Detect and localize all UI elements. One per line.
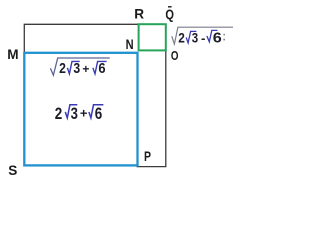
svg-text:2: 2 [55, 105, 63, 123]
svg-text:2: 2 [59, 61, 66, 77]
svg-text:2: 2 [178, 30, 185, 46]
svg-text:S: S [8, 163, 17, 178]
green side label: inner radical of sqrt3 [186, 31, 196, 43]
green side label: minus sign [202, 39, 205, 41]
svg-text:6: 6 [95, 105, 103, 123]
svg-text:P: P [144, 149, 151, 164]
svg-text:Q: Q [165, 7, 174, 22]
clipped colon artifact at image edge [223, 34, 225, 36]
side label sqrt(2*sqrt3 + sqrt6): outer radical with vinculum [50, 58, 109, 75]
svg-text:M: M [7, 47, 18, 62]
green side label: inner radical of sqrt6 [207, 30, 218, 41]
svg-text:R: R [134, 7, 144, 22]
svg-text:3: 3 [71, 105, 78, 123]
svg-text:3: 3 [192, 30, 199, 46]
area label: radical of sqrt3 [65, 105, 77, 118]
svg-text:O: O [171, 48, 179, 63]
svg-text:3: 3 [73, 61, 80, 77]
green square at top-right corner (side RQ) [139, 24, 166, 50]
svg-text:N: N [126, 37, 134, 52]
green side label sqrt(2*sqrt3 - sqrt6): outer radical with vinculum to edge [172, 27, 233, 44]
svg-text:+: + [82, 62, 89, 76]
area label: radical of sqrt6 [89, 105, 104, 118]
svg-text:6: 6 [213, 31, 222, 47]
outer square R Q O S (black outline) [24, 24, 166, 166]
svg-text:+: + [80, 106, 88, 121]
side label: inner radical of sqrt6 [93, 61, 107, 73]
bar above Q [168, 6, 172, 7]
blue square M N P S [24, 53, 137, 166]
side label: inner radical of sqrt3 [67, 61, 79, 73]
svg-text:6: 6 [98, 61, 105, 77]
